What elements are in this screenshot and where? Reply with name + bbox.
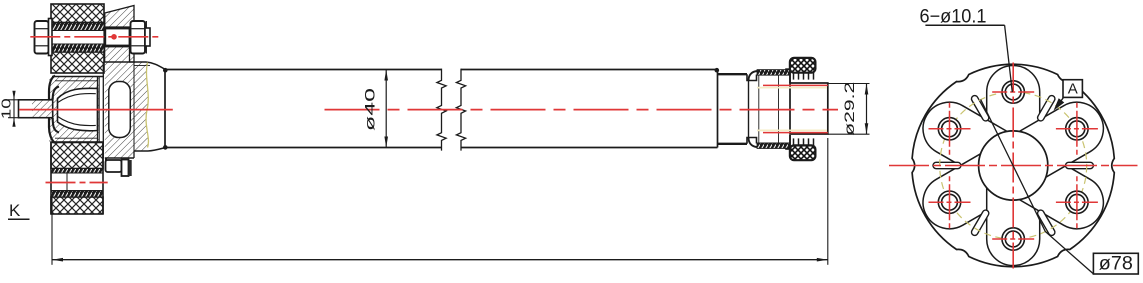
clamp hook <box>105 158 107 166</box>
ø78 leader <box>981 100 1094 274</box>
main center line <box>19 109 173 111</box>
bolt holes <box>1002 81 1024 103</box>
flange outline <box>105 61 146 63</box>
lower rubber disc cross-hatch <box>51 142 103 169</box>
lower sleeve blocks <box>106 160 122 172</box>
flange bolt pocket <box>109 82 131 138</box>
yoke bore lips <box>53 87 59 100</box>
yoke face gap column <box>99 77 103 143</box>
slots between lobes <box>1066 162 1094 168</box>
shell knurl bands <box>757 70 790 76</box>
lower sleeve knurled bands <box>51 169 103 174</box>
lobe petals <box>987 65 1040 143</box>
svg-text:K: K <box>9 201 21 220</box>
flange weld S-curve <box>146 63 148 148</box>
dim ø40 <box>385 70 387 148</box>
centre bore circle <box>979 131 1048 200</box>
dim ø29.2 <box>828 83 870 85</box>
svg-text:ø78: ø78 <box>1099 254 1133 275</box>
yoke body hatched section <box>49 77 104 143</box>
end cap neck <box>717 70 719 148</box>
yoke arm wedge above sleeve <box>105 6 134 63</box>
cap hidden bore lines (red) <box>763 84 828 86</box>
wing clip top <box>785 68 790 70</box>
top rubber disc cross-hatch <box>51 4 104 23</box>
red centre lines of end view <box>889 165 1138 167</box>
coupling disc silhouette <box>912 64 1114 266</box>
tulip trumpet cavity <box>58 88 98 131</box>
yoke face lines <box>97 77 99 143</box>
break lines <box>437 69 446 151</box>
stub shaft <box>19 100 53 118</box>
cap hidden bore lines (pale) <box>757 87 827 89</box>
hole crosshairs <box>992 91 1034 93</box>
bolt sleeve box <box>105 28 130 46</box>
top sleeve knurled bands <box>51 23 104 31</box>
tube outline <box>165 69 442 71</box>
svg-text:ø29.2: ø29.2 <box>842 82 857 136</box>
flange disc hatched section <box>105 62 149 158</box>
svg-text:A: A <box>1068 80 1078 97</box>
overall length dimension <box>51 196 53 265</box>
ø78 box <box>1093 253 1138 274</box>
svg-text:6−ø10.1: 6−ø10.1 <box>920 6 987 27</box>
bolt washer <box>49 19 53 56</box>
plug cylinder <box>790 83 828 134</box>
top bolt center dot <box>111 34 117 40</box>
detail A box <box>1056 97 1064 108</box>
bolt head M10 <box>35 21 49 54</box>
svg-text:10: 10 <box>0 98 13 119</box>
junction dots <box>163 68 168 73</box>
top bolt center line <box>30 36 158 38</box>
lower bolt center line <box>46 182 108 184</box>
yoke outline <box>49 76 55 144</box>
svg-text:ø40: ø40 <box>362 88 377 131</box>
nut <box>131 21 146 54</box>
dim 10 <box>8 99 19 101</box>
cap shell <box>749 71 791 147</box>
bolt circle (olive dashed) <box>940 92 1087 239</box>
wing clip bottom <box>785 148 790 150</box>
